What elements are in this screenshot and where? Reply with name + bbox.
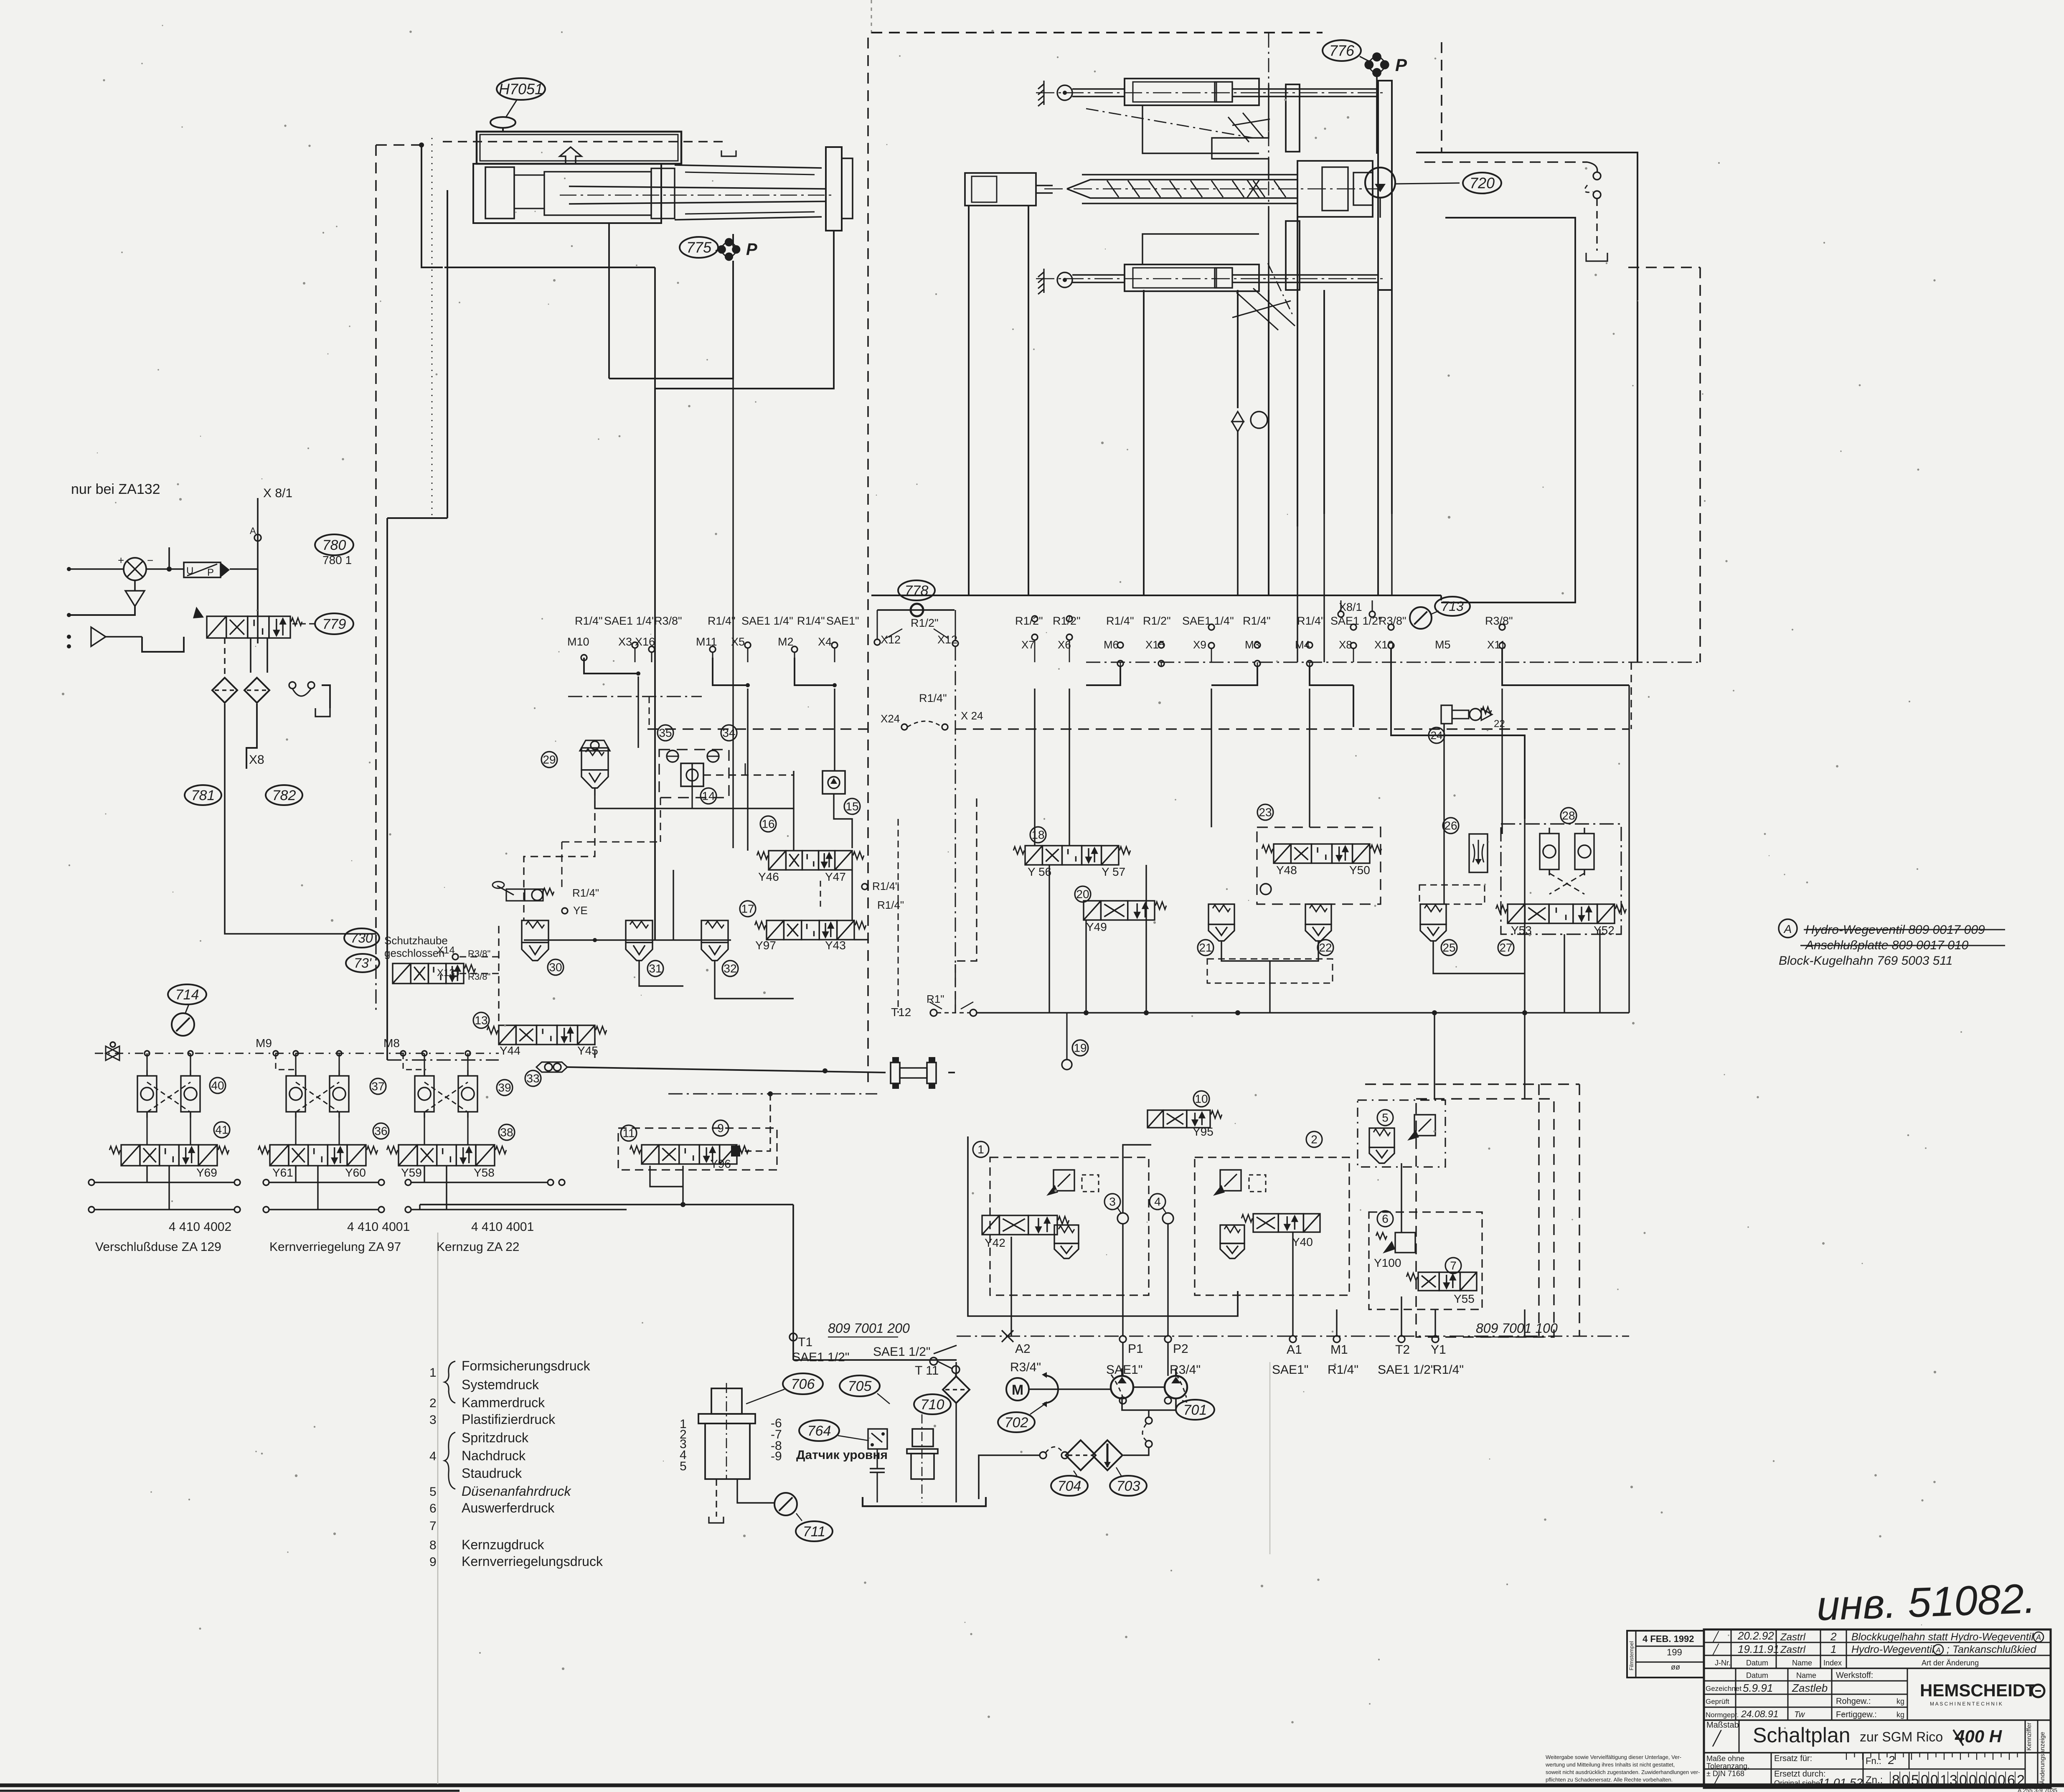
clamp housing outline	[1142, 84, 1269, 290]
lower rod	[1036, 275, 1387, 282]
amplifier triangle	[91, 627, 106, 646]
svg-text:P: P	[1395, 55, 1407, 75]
svg-text:X8: X8	[249, 753, 264, 767]
svg-text:778: 778	[905, 583, 929, 599]
valve Y97 Y43	[755, 920, 866, 940]
svg-text:Y55: Y55	[1454, 1292, 1475, 1305]
film stamp texts	[1628, 1634, 1694, 1671]
svg-text:P: P	[207, 567, 214, 578]
cart g2	[1220, 1225, 1244, 1258]
svg-text:Normgepr.: Normgepr.	[1706, 1711, 1739, 1719]
svg-text:2: 2	[1830, 1630, 1837, 1643]
svg-text:X9: X9	[1193, 638, 1206, 651]
mid verticals left cluster	[595, 676, 869, 940]
svg-text:Y 56: Y 56	[1028, 865, 1051, 878]
svg-text:0: 0	[1978, 1772, 1986, 1788]
lower cylinder body	[1072, 264, 1259, 291]
svg-text:809 7001 200: 809 7001 200	[828, 1321, 910, 1336]
svg-text:25: 25	[1442, 941, 1455, 954]
Y52 drop	[1599, 929, 1600, 1013]
svg-text:720: 720	[1470, 175, 1495, 192]
filter 782	[244, 678, 269, 703]
778 ball valve	[898, 580, 935, 600]
ports bottom rail	[957, 1330, 1629, 1342]
svg-text:M2: M2	[778, 635, 794, 648]
svg-text:0: 0	[1930, 1772, 1938, 1788]
svg-text:1: 1	[429, 1366, 437, 1380]
svg-text:R3/8": R3/8"	[654, 615, 682, 627]
svg-text:R1/4": R1/4"	[919, 692, 947, 704]
svg-text:2: 2	[1311, 1133, 1318, 1146]
group2 dashed box	[1195, 1157, 1349, 1295]
svg-text:775: 775	[686, 239, 712, 256]
valve 7 Y55	[1406, 1272, 1477, 1291]
ruler ticks	[1844, 1753, 2025, 1760]
wire from crosshead down	[655, 231, 834, 389]
svg-text:4 410 4001: 4 410 4001	[471, 1220, 534, 1234]
svg-text:T2: T2	[1395, 1343, 1410, 1357]
filter 781	[212, 678, 237, 703]
dotted crease x1034	[432, 138, 433, 520]
Schaltplan title	[1753, 1723, 2003, 1747]
svg-text:19: 19	[1074, 1042, 1087, 1055]
Y95 valve 10	[1148, 1110, 1222, 1128]
left leg down	[419, 1205, 420, 1210]
main rail y1430	[871, 595, 1441, 600]
svg-text:-9: -9	[771, 1449, 782, 1463]
wire x1071	[387, 190, 447, 1060]
svg-text:X14: X14	[437, 945, 455, 956]
top dashed boundary	[871, 32, 1323, 33]
lower tie-bar anchor	[1038, 269, 1044, 294]
svg-text:1: 1	[1940, 1772, 1948, 1788]
svg-text:Formsicherungsdruck: Formsicherungsdruck	[462, 1358, 591, 1373]
pump suction loop solid	[1416, 153, 1637, 662]
info rows	[1706, 1671, 1904, 1719]
svg-text:37: 37	[371, 1080, 384, 1093]
station names	[95, 1240, 519, 1254]
svg-text:Kernverriegelungsdruck: Kernverriegelungsdruck	[462, 1554, 603, 1569]
M9 M8 labels	[256, 1037, 400, 1050]
svg-text:R3/4": R3/4"	[1010, 1360, 1041, 1374]
group1 outline	[968, 1136, 1238, 1316]
svg-text:SAE1 1/2": SAE1 1/2"	[1378, 1363, 1435, 1377]
svg-text:Fertiggew.:: Fertiggew.:	[1836, 1710, 1877, 1719]
gauge 714	[172, 1013, 194, 1036]
pumps 701	[1111, 1368, 1133, 1398]
wires below injection cylinder	[609, 223, 733, 379]
svg-text:Rohgew.:: Rohgew.:	[1836, 1697, 1871, 1706]
check 35	[658, 725, 678, 762]
svg-text:20: 20	[1076, 888, 1089, 901]
station 3 Y59 Y58	[387, 1051, 515, 1210]
right cluster feed verticals	[1035, 514, 1629, 1013]
svg-text:P: P	[746, 240, 757, 259]
tank filler knob	[490, 117, 515, 132]
hand lever valve	[493, 882, 554, 901]
dashed box 23	[1257, 827, 1381, 904]
clamp legs vertical wires	[1144, 217, 1392, 595]
wires right cluster	[1049, 865, 1564, 1013]
svg-text:Name: Name	[1792, 1659, 1812, 1667]
svg-text:X4: X4	[818, 635, 832, 648]
svg-text:Hydro-Wegeventil: Hydro-Wegeventil	[1851, 1644, 1935, 1655]
svg-text:Name: Name	[1796, 1671, 1816, 1680]
valve 23 Y48 Y50	[1262, 844, 1381, 863]
svg-text:13: 13	[475, 1014, 487, 1027]
right edge dashed loop	[1628, 267, 1700, 662]
dashed box g5	[1358, 1100, 1445, 1167]
svg-text:714: 714	[175, 987, 199, 1003]
svg-text:HEMSCHEIDT: HEMSCHEIDT	[1920, 1680, 2036, 1700]
flow control 26	[1443, 818, 1488, 872]
svg-text:9: 9	[429, 1555, 437, 1569]
nozzle cylinder	[965, 173, 1053, 206]
manifold numbers	[680, 1416, 782, 1473]
svg-text:M9: M9	[256, 1037, 272, 1050]
sheet bottom rule	[0, 1785, 2064, 1791]
wires right of ports	[1086, 648, 1629, 819]
label H7051	[497, 78, 545, 100]
svg-text:704: 704	[1058, 1478, 1082, 1494]
svg-text:781: 781	[191, 788, 215, 803]
dashed arcs P1 P2	[1111, 1375, 1186, 1404]
svg-text:38: 38	[500, 1126, 513, 1139]
svg-text:5: 5	[1382, 1111, 1389, 1124]
lower diagonal link	[1232, 263, 1295, 330]
svg-text:Zn.:: Zn.:	[1866, 1774, 1883, 1786]
left ports M10 X3 X16 M11 X5 M2 X4	[567, 615, 859, 662]
svg-text:8: 8	[1892, 1772, 1900, 1788]
svg-text:P1: P1	[1128, 1342, 1143, 1356]
svg-text:Y95: Y95	[1193, 1125, 1214, 1138]
svg-text:2: 2	[429, 1396, 437, 1410]
svg-text:−: −	[147, 554, 153, 567]
cart 22	[1305, 904, 1331, 941]
station dashed top rail	[95, 1053, 499, 1054]
wires pump groups	[1011, 974, 1525, 1336]
svg-text:23: 23	[1259, 806, 1272, 819]
svg-text:Y61: Y61	[272, 1166, 293, 1179]
svg-text:Kennziffer: Kennziffer	[2026, 1723, 2033, 1751]
svg-text:0: 0	[1902, 1772, 1909, 1788]
svg-text:R1": R1"	[927, 993, 944, 1005]
svg-text:32: 32	[724, 962, 736, 975]
filler arrow	[560, 147, 581, 164]
svg-text:R1/4": R1/4"	[1297, 615, 1325, 627]
svg-text:0: 0	[1959, 1772, 1967, 1788]
note A Hydro-Wegeventil	[1779, 919, 2005, 968]
legend pressure list	[429, 1358, 603, 1569]
svg-text:Systemdruck: Systemdruck	[462, 1377, 539, 1392]
label 782	[266, 785, 302, 805]
svg-text:Maßstab: Maßstab	[1706, 1721, 1739, 1730]
screw coupling cross	[1247, 180, 1259, 198]
svg-text:5: 5	[429, 1485, 437, 1499]
svg-text:Y60: Y60	[345, 1166, 366, 1179]
svg-text:Kernzugdruck: Kernzugdruck	[462, 1537, 544, 1552]
svg-text:27: 27	[1499, 941, 1512, 954]
svg-text:Zastrl: Zastrl	[1780, 1644, 1806, 1655]
svg-text:Y52: Y52	[1594, 924, 1615, 937]
svg-text:X 8/1: X 8/1	[263, 486, 292, 500]
svg-text:SAE1 1/2": SAE1 1/2"	[792, 1350, 849, 1364]
svg-text:T12: T12	[891, 1006, 911, 1019]
svg-text:3: 3	[1950, 1772, 1957, 1788]
svg-text:21: 21	[1199, 941, 1212, 954]
pump 720 stub	[1379, 198, 1381, 218]
manifold to gauge wire	[709, 1479, 774, 1523]
svg-text:Plastifizierdruck: Plastifizierdruck	[462, 1412, 556, 1427]
svg-text:Blockkugelhahn statt Hydro-Weg: Blockkugelhahn statt Hydro-Wegeventil	[1851, 1631, 2034, 1643]
svg-text:Y40: Y40	[1292, 1235, 1313, 1248]
side vertical text	[2026, 1723, 2046, 1784]
svg-text:Filmstempel: Filmstempel	[1628, 1641, 1635, 1670]
svg-text:A1: A1	[1287, 1343, 1302, 1357]
svg-text:Датчик уровня: Датчик уровня	[796, 1448, 888, 1462]
check 28a	[1540, 828, 1559, 875]
svg-text:A: A	[1783, 923, 1792, 935]
group1 dashed box	[990, 1157, 1149, 1295]
svg-text:Art der Änderung: Art der Änderung	[1922, 1659, 1979, 1667]
svg-text:17: 17	[741, 902, 754, 915]
svg-text:T 11: T 11	[915, 1364, 939, 1378]
piston rod	[560, 186, 835, 204]
svg-text:wertung und Mitteilung ihres I: wertung und Mitteilung ihres Inhalts ist…	[1545, 1761, 1675, 1768]
check 28b	[1575, 828, 1594, 875]
X8 port	[246, 704, 264, 769]
svg-text:Zastrl: Zastrl	[1780, 1632, 1806, 1643]
wires 779	[225, 569, 267, 678]
svg-text:zur SGM Rico: zur SGM Rico	[1860, 1729, 1943, 1744]
label 720	[1463, 173, 1501, 193]
title block frame	[1627, 1629, 2051, 1788]
dashed boundary x2078	[867, 38, 869, 1082]
coupling arc	[1044, 1375, 1058, 1403]
svg-text:4 410 4001: 4 410 4001	[347, 1220, 410, 1234]
svg-text:øø: øø	[1671, 1663, 1680, 1671]
svg-text:14: 14	[702, 790, 715, 803]
svg-text:Auswerferdruck: Auswerferdruck	[462, 1500, 555, 1515]
label 701	[1176, 1400, 1214, 1420]
svg-text:19.11.91: 19.11.91	[1738, 1643, 1779, 1655]
svg-text:SAE1 1/4": SAE1 1/4"	[1182, 615, 1234, 627]
handpump 24	[1441, 705, 1505, 730]
label 710	[914, 1394, 951, 1414]
svg-text:╱: ╱	[1712, 1643, 1719, 1655]
svg-text:+: +	[118, 554, 124, 567]
tank bracket right	[289, 682, 330, 717]
svg-text:20.2.92: 20.2.92	[1737, 1629, 1774, 1642]
svg-text:X3: X3	[618, 635, 632, 648]
left wires	[421, 145, 655, 940]
port X8/1 left	[250, 486, 292, 643]
svg-text:R1/4": R1/4"	[1106, 615, 1134, 627]
station part numbers	[169, 1220, 534, 1234]
cart g1	[1054, 1225, 1079, 1258]
M5 gauge 713	[1410, 607, 1451, 651]
needle X left	[106, 1046, 119, 1060]
X8/1 labels top	[1338, 601, 1375, 617]
injection cylinder body	[473, 164, 661, 223]
P port symbol 775	[718, 238, 741, 261]
svg-text:SAE1 1/4": SAE1 1/4"	[604, 615, 656, 627]
label 705	[840, 1375, 880, 1396]
svg-text:Y69: Y69	[196, 1166, 217, 1179]
svg-text:4: 4	[1154, 1195, 1161, 1208]
svg-text:X12: X12	[937, 633, 957, 646]
svg-text:30: 30	[549, 961, 562, 974]
X8/1 right risers	[1341, 600, 1372, 611]
svg-text:40: 40	[211, 1079, 224, 1092]
dashed boxes g6 g7	[1369, 1099, 1554, 1337]
rail y2883	[420, 1205, 957, 1360]
svg-text:M6: M6	[1104, 638, 1119, 651]
svg-text:22: 22	[1494, 718, 1505, 730]
carts 30 31 32	[522, 920, 548, 961]
dashed drop x3905	[1630, 662, 1632, 729]
label 706	[783, 1373, 823, 1394]
svg-text:SAE1 1/2": SAE1 1/2"	[873, 1345, 930, 1359]
svg-text:Kernverriegelung ZA 97: Kernverriegelung ZA 97	[269, 1240, 401, 1254]
svg-text:5: 5	[1911, 1772, 1919, 1788]
svg-text:Werkstoff:: Werkstoff:	[1836, 1671, 1873, 1680]
svg-text:10: 10	[1195, 1093, 1208, 1106]
station rails	[89, 1179, 627, 1212]
svg-text:2: 2	[1888, 1754, 1895, 1767]
svg-text:0: 0	[1998, 1772, 2006, 1788]
svg-text:1: 1	[1830, 1643, 1836, 1655]
group 28 box	[1501, 824, 1621, 934]
label 776	[1323, 40, 1361, 61]
svg-text:809 7001 100: 809 7001 100	[1476, 1321, 1558, 1336]
label 764	[799, 1420, 839, 1441]
label 713	[1435, 597, 1470, 616]
svg-text:kg: kg	[1896, 1697, 1904, 1706]
right ports X7 X6 M6 X15 X9 M3 M4 X8 X10 X11	[1015, 615, 1513, 666]
svg-text:Zastleb: Zastleb	[1792, 1682, 1828, 1694]
svg-text:M: M	[1012, 1382, 1023, 1398]
svg-text:A: A	[250, 526, 256, 536]
svg-text:706: 706	[791, 1376, 815, 1392]
pump right dashed loop	[1424, 42, 1607, 261]
svg-text:0: 0	[1921, 1772, 1929, 1788]
svg-text:Y100: Y100	[1374, 1256, 1401, 1269]
svg-text:╱: ╱	[1712, 1774, 1720, 1788]
valve 9 Y96	[630, 1145, 749, 1164]
T12 ports	[891, 993, 977, 1019]
svg-text:R1/2": R1/2"	[1143, 615, 1171, 627]
revision rows	[1712, 1629, 2044, 1667]
relief g1	[1046, 1170, 1099, 1196]
screw	[1044, 180, 1379, 198]
shuttle 33	[525, 1062, 567, 1086]
svg-text:5: 5	[680, 1459, 687, 1473]
cart 21	[1208, 904, 1234, 941]
label 711	[796, 1521, 833, 1541]
upper cylinder body	[1072, 79, 1259, 105]
svg-text:╱: ╱	[1712, 1730, 1722, 1747]
dash-dot to solenoid	[668, 1091, 877, 1157]
station 1 Y69	[109, 1051, 230, 1210]
cart g5	[1369, 1128, 1394, 1163]
svg-text:pflichten zu Schadenersatz. Al: pflichten zu Schadenersatz. Alle Rechte …	[1546, 1777, 1673, 1783]
svg-text:X 24: X 24	[961, 709, 983, 722]
group5	[1377, 1110, 1435, 1141]
suction line left	[979, 1447, 1068, 1499]
svg-text:24.08.91: 24.08.91	[1741, 1708, 1779, 1719]
valve 14 square	[681, 763, 716, 804]
proportional valve 779	[207, 616, 302, 638]
label 780	[315, 534, 353, 555]
svg-text:soweit nicht ausdrücklich zuge: soweit nicht ausdrücklich zugestanden. Z…	[1546, 1769, 1700, 1775]
svg-text:Toleranzang.: Toleranzang.	[1706, 1762, 1749, 1770]
svg-text:6: 6	[429, 1502, 437, 1515]
valve 13 Y44 Y45	[487, 1025, 607, 1045]
svg-text:780: 780	[322, 537, 346, 553]
svg-text:7: 7	[1450, 1259, 1457, 1272]
svg-text:Tw: Tw	[1794, 1710, 1805, 1719]
wire from P776 down	[1376, 76, 1378, 154]
svg-text:36: 36	[374, 1125, 387, 1138]
svg-text:Y48: Y48	[1276, 864, 1297, 877]
Y40 valve	[1241, 1214, 1320, 1232]
svg-text:Y97: Y97	[755, 939, 776, 952]
svg-text:H7051: H7051	[499, 81, 543, 98]
labels 11 9	[621, 1125, 637, 1141]
svg-text:702: 702	[1005, 1415, 1028, 1431]
svg-text:R1/2": R1/2"	[1015, 615, 1043, 627]
T1 port	[790, 1333, 849, 1364]
svg-text:Staudruck: Staudruck	[462, 1466, 522, 1481]
check circle 23	[1260, 884, 1271, 895]
probe 705	[907, 1414, 938, 1502]
svg-text:M5: M5	[1435, 638, 1451, 651]
svg-text:X7: X7	[1021, 638, 1035, 651]
svg-text:R1/4": R1/4"	[877, 899, 904, 911]
Y96 wires	[650, 1166, 685, 1207]
svg-text:Datum: Datum	[1746, 1659, 1768, 1667]
Schutzhaube text	[384, 934, 448, 959]
svg-text:Spritzdruck: Spritzdruck	[462, 1430, 529, 1445]
valve 27 Y53 Y52	[1496, 904, 1626, 923]
svg-text:A 255 3-9 7035: A 255 3-9 7035	[2018, 1787, 2057, 1792]
label 704	[1051, 1476, 1088, 1496]
manifold 706	[698, 1383, 755, 1479]
nodes 3 4	[1104, 1194, 1173, 1224]
cart 25	[1420, 904, 1446, 941]
pump risers to ports	[1011, 1336, 1293, 1376]
svg-text:Y49: Y49	[1086, 920, 1107, 933]
svg-text:SAE1": SAE1"	[826, 615, 859, 627]
svg-text:R1/4": R1/4"	[708, 615, 736, 627]
left ports connecting Ls	[584, 658, 837, 687]
label 779	[315, 613, 353, 634]
svg-text:R1/4": R1/4"	[872, 880, 899, 892]
station 2 Y61 Y60	[258, 1051, 389, 1210]
cartridge 29	[581, 748, 608, 788]
tank level dashed line	[443, 142, 736, 156]
svg-text:Fn.:: Fn.:	[1866, 1756, 1881, 1766]
clamp centerline dashdot	[1268, 33, 1269, 292]
svg-text:Original siehe:: Original siehe:	[1774, 1779, 1822, 1787]
nozzle cyl legs	[969, 206, 1028, 595]
svg-text:Y1: Y1	[1431, 1343, 1446, 1357]
svg-text:Block-Kugelhahn 769 5003 5: Block-Kugelhahn 769 5003 511	[1779, 954, 1952, 968]
pressure transducer gauge	[118, 554, 153, 580]
wire x1755 long	[732, 379, 734, 848]
label 781	[185, 785, 221, 805]
